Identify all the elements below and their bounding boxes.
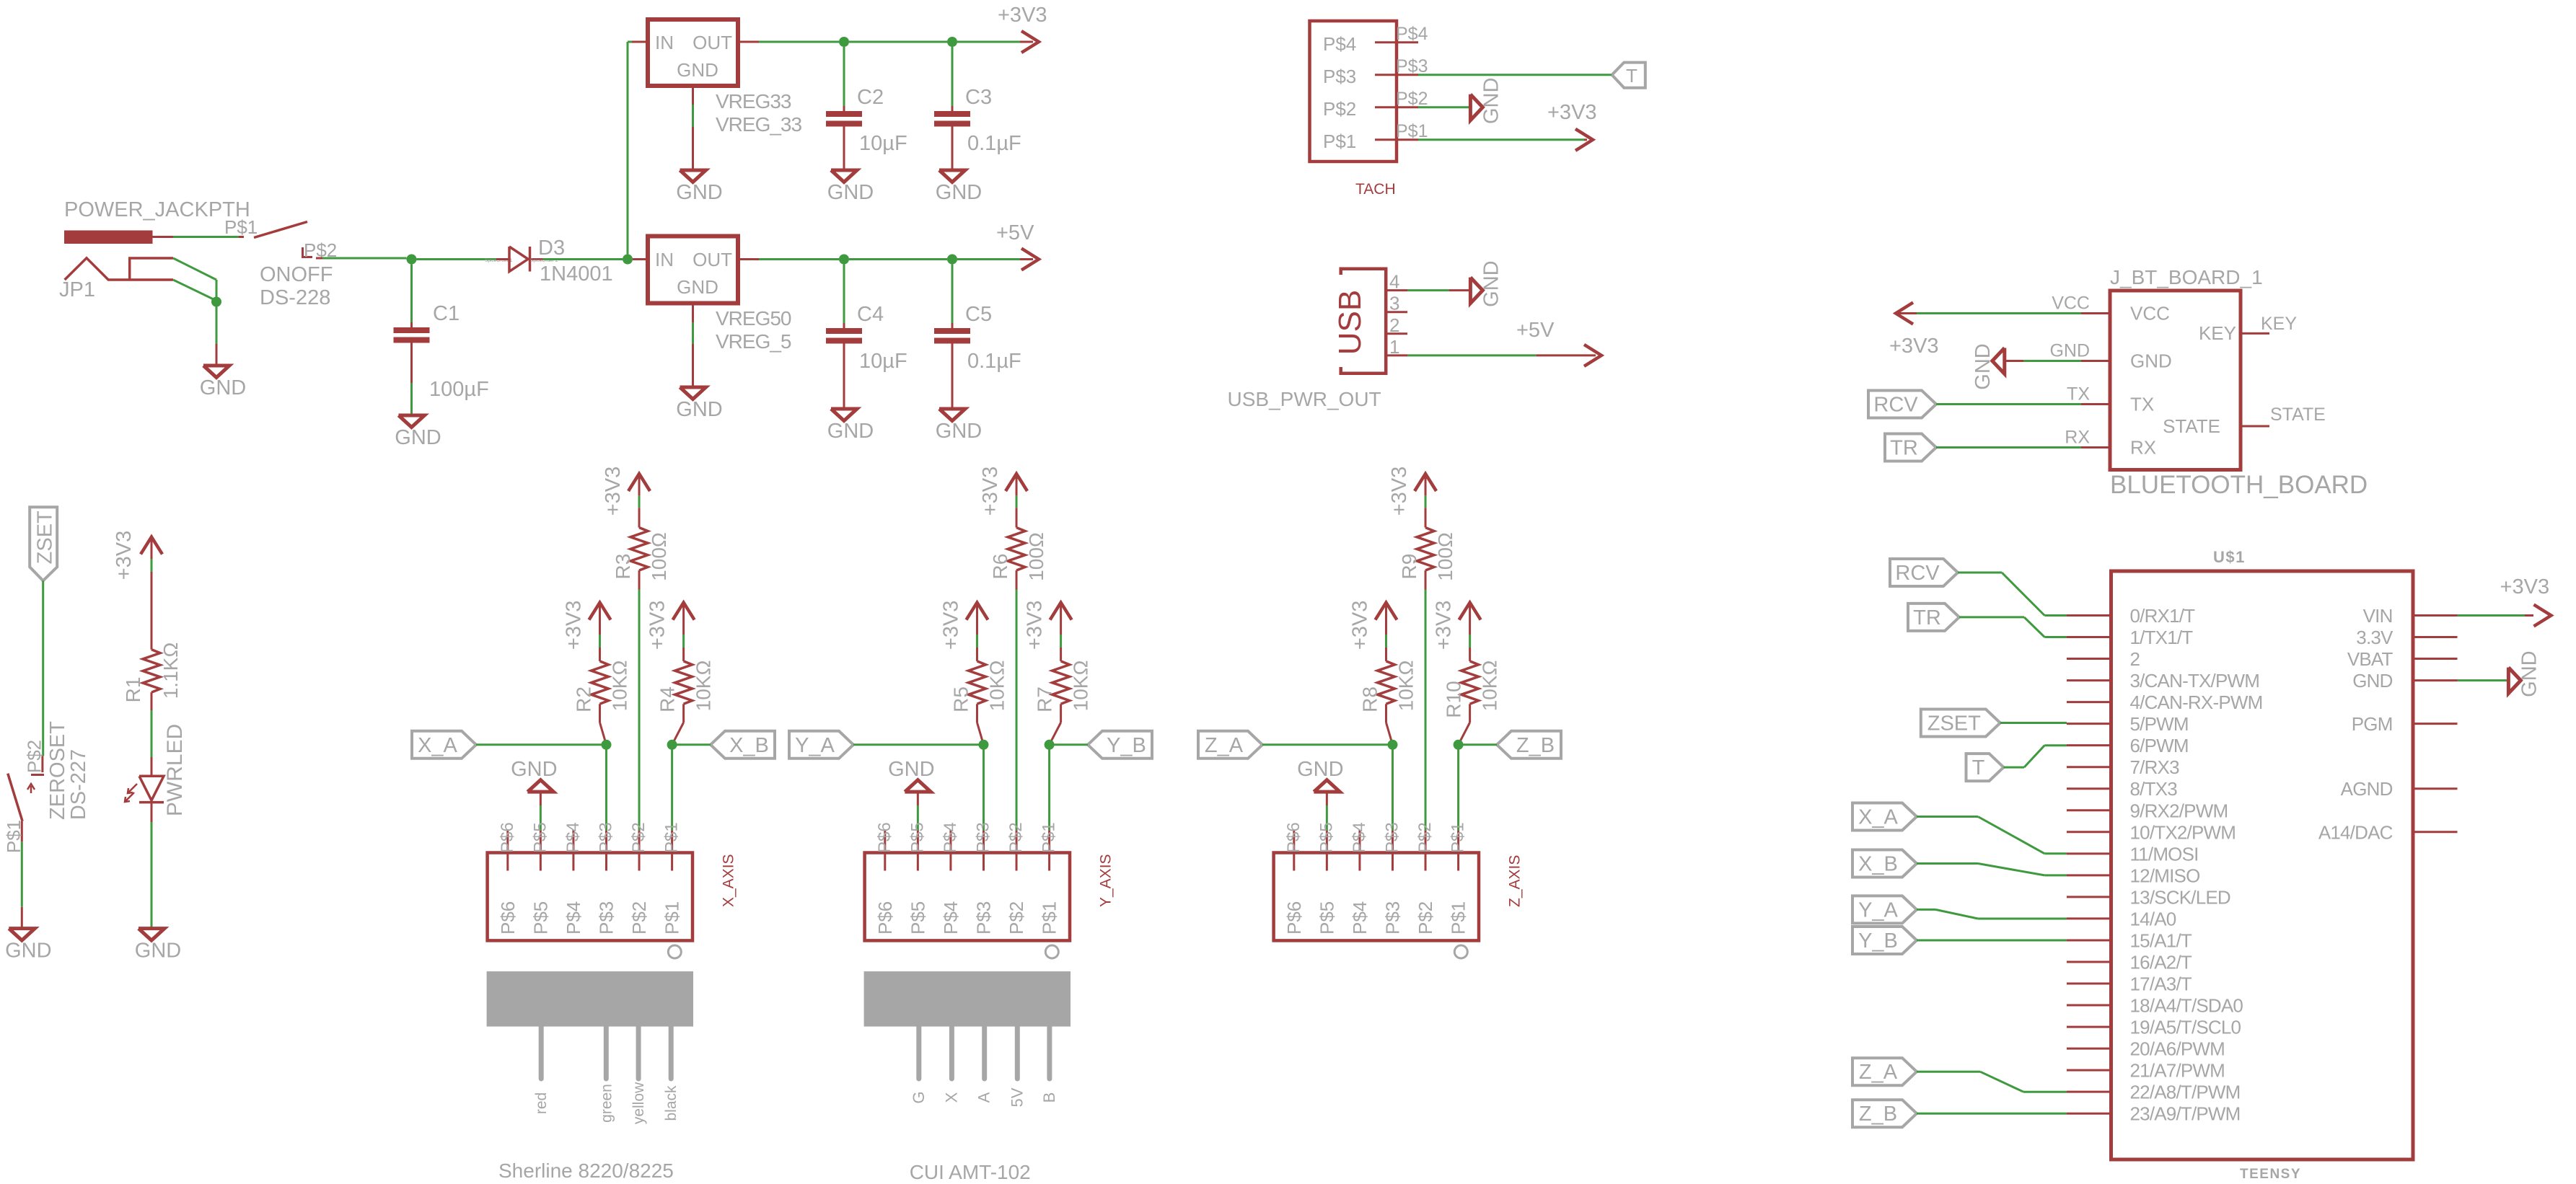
pin label P$2 of ZEROSET xyxy=(24,740,45,773)
pin name 21/A7/PWM inside U$1 xyxy=(2130,1060,2225,1082)
label 10KΩ value of R7 xyxy=(1070,661,1092,712)
wire R3 to pin P$2 xyxy=(638,590,641,831)
label A pin rotated xyxy=(975,1092,993,1103)
ground GND Y_AXIS rotated up xyxy=(888,758,934,792)
svg-text:P$5: P$5 xyxy=(529,901,551,935)
capacitor C5 bottom pin xyxy=(951,344,954,410)
pin 11/MOSI of U$1 xyxy=(2067,852,2111,854)
pin label P$3 outside Z_AXIS xyxy=(1382,822,1402,853)
svg-text:+3V3: +3V3 xyxy=(979,467,1002,516)
svg-text:P$4: P$4 xyxy=(1323,33,1356,55)
svg-text:+5V: +5V xyxy=(1516,319,1555,342)
svg-text:Z_B: Z_B xyxy=(1516,734,1555,757)
pin stub PWRLED GND xyxy=(151,927,153,929)
label +3V3 R4 rotated xyxy=(646,601,669,650)
switch ONOFF P$2 bracket xyxy=(303,247,313,257)
resistor R7 top pin xyxy=(1060,648,1062,661)
LED PWRLED anode pin xyxy=(151,757,153,776)
pin label P$5 outside Y_AXIS xyxy=(907,822,927,853)
pin name VBAT inside U$1 right xyxy=(2347,648,2393,670)
pin name P$3 inside Z_AXIS xyxy=(1381,901,1403,935)
resistor R8 bottom pin xyxy=(1386,704,1392,745)
wire node to diode D3 xyxy=(417,258,506,260)
svg-text:P$5: P$5 xyxy=(1316,822,1336,853)
svg-text:10/TX2/PWM: 10/TX2/PWM xyxy=(2130,821,2236,843)
svg-text:0.1µF: 0.1µF xyxy=(967,350,1021,373)
voltage regulator VREG50 box xyxy=(648,237,738,304)
svg-text:P$6: P$6 xyxy=(498,822,517,853)
svg-text:10µF: 10µF xyxy=(859,350,907,373)
pin name 2 inside U$1 xyxy=(2130,648,2140,670)
switch ZEROSET P$2 pin xyxy=(41,756,43,772)
pin TX of bluetooth board xyxy=(2081,403,2110,405)
svg-text:DS-227: DS-227 xyxy=(67,749,90,820)
image CUI pin G xyxy=(916,1027,921,1079)
pin name P$3 inside Y_AXIS xyxy=(972,901,994,935)
svg-text:GND: GND xyxy=(5,940,51,963)
svg-text:D3: D3 xyxy=(538,237,565,260)
svg-text:P$1: P$1 xyxy=(661,901,683,935)
svg-text:Z_AXIS: Z_AXIS xyxy=(1506,855,1523,907)
resistor R4 bottom pin xyxy=(672,704,684,745)
pin name 3/CAN-TX/PWM inside U$1 xyxy=(2130,670,2260,692)
pin name 4/CAN-RX-PWM inside U$1 xyxy=(2130,692,2263,713)
capacitor C2 top pin xyxy=(843,106,845,111)
junction node jack ground xyxy=(211,297,221,307)
ground GND Z_AXIS rotated up xyxy=(1297,758,1343,792)
pin label P$3 outside TACH xyxy=(1396,56,1428,76)
svg-text:GND: GND xyxy=(827,181,874,204)
label 10KΩ value of R8 xyxy=(1394,661,1417,712)
connector JP1 tip contact xyxy=(130,258,173,280)
svg-text:P$4: P$4 xyxy=(940,901,962,935)
pin label P$5 outside Z_AXIS xyxy=(1316,822,1336,853)
svg-text:P$3: P$3 xyxy=(596,822,615,853)
image CUI connector body xyxy=(864,971,1071,1027)
label +3V3 top xyxy=(998,4,1047,27)
connector JP1 POWER_JACKPTH name label xyxy=(64,198,250,221)
resistor R4 top pin xyxy=(682,648,685,661)
svg-text:P$6: P$6 xyxy=(497,901,519,935)
svg-text:3/CAN-TX/PWM: 3/CAN-TX/PWM xyxy=(2130,670,2260,692)
label DS-227 rotated xyxy=(67,749,90,820)
pin 3 of USB xyxy=(1386,311,1407,313)
flag X_B teensy xyxy=(1852,850,1917,878)
label +3V3 R5 rotated xyxy=(939,601,962,650)
svg-text:P$4: P$4 xyxy=(563,822,583,853)
resistor R3 top pin xyxy=(638,508,641,527)
svg-text:+3V3: +3V3 xyxy=(1547,101,1597,124)
label R1 rotated xyxy=(122,677,144,703)
wire ZEROSET P$1 to GND xyxy=(21,841,23,907)
svg-text:USB_PWR_OUT: USB_PWR_OUT xyxy=(1228,388,1381,410)
diode D3 triangle xyxy=(509,247,528,272)
wire junction to pin P$1 X_AXIS xyxy=(671,745,673,831)
svg-text:+3V3: +3V3 xyxy=(998,4,1047,27)
capacitor C4 plates xyxy=(826,328,862,344)
pin number 2 of USB xyxy=(1389,314,1399,336)
svg-text:VREG33: VREG33 xyxy=(716,90,791,112)
svg-text:BLUETOOTH_BOARD: BLUETOOTH_BOARD xyxy=(2110,471,2368,499)
svg-text:P$5: P$5 xyxy=(907,822,927,853)
label R8 rotated xyxy=(1358,686,1381,712)
pin 8/TX3 of U$1 xyxy=(2067,787,2111,790)
svg-text:+3V3: +3V3 xyxy=(1433,601,1456,650)
pin VCC of bluetooth board xyxy=(2081,312,2110,314)
pin name P$5 inside X_AXIS xyxy=(529,901,551,935)
pin 1 marker circle Y_AXIS xyxy=(1045,945,1058,958)
pin 6/PWM of U$1 xyxy=(2067,744,2111,746)
pin name 12/MISO inside U$1 xyxy=(2130,865,2200,886)
pin name P$2 inside Y_AXIS xyxy=(1006,901,1027,935)
label B pin rotated xyxy=(1040,1092,1058,1103)
pin P$3 of TACH xyxy=(1375,74,1418,76)
wire RCV to TX xyxy=(1936,403,2081,405)
wire Y_B to junction xyxy=(1050,743,1088,746)
svg-text:P$4: P$4 xyxy=(1350,822,1369,853)
svg-text:13/SCK/LED: 13/SCK/LED xyxy=(2130,886,2230,908)
resistor R5 bottom pin xyxy=(977,704,983,745)
resistor R4 zigzag xyxy=(675,661,693,704)
label X_AXIS rotated xyxy=(720,854,737,907)
wire junction to pin P$1 Y_AXIS xyxy=(1048,745,1050,831)
wire Z_A to junction xyxy=(1262,743,1392,746)
pin 14/A0 of U$1 xyxy=(2067,917,2111,919)
pin stub to GND zeroset xyxy=(21,907,23,929)
pin name AGND inside U$1 right xyxy=(2341,778,2393,800)
svg-text:100µF: 100µF xyxy=(429,378,489,401)
label 0.1µF value of C5 xyxy=(967,350,1021,373)
svg-text:23/A9/T/PWM: 23/A9/T/PWM xyxy=(2130,1103,2241,1125)
svg-text:GND: GND xyxy=(2352,670,2392,692)
label C4 xyxy=(857,303,884,326)
label 10KΩ value of R10 xyxy=(1479,661,1501,712)
wire junction to pin P$3 Y_AXIS xyxy=(983,745,985,831)
capacitor C2 bottom pin xyxy=(843,127,845,171)
svg-text:GND: GND xyxy=(1480,260,1503,306)
switch ZEROSET P$2 bracket xyxy=(31,774,44,776)
svg-text:8/TX3: 8/TX3 xyxy=(2130,778,2178,800)
pin PGM of U$1 right xyxy=(2413,723,2458,725)
pin 21/A7/PWM of U$1 xyxy=(2067,1069,2111,1072)
svg-text:C2: C2 xyxy=(857,86,884,109)
svg-text:R1: R1 xyxy=(122,677,144,703)
label R5 rotated xyxy=(949,686,972,712)
svg-text:Y_B: Y_B xyxy=(1107,734,1146,757)
svg-text:A14/DAC: A14/DAC xyxy=(2318,821,2393,843)
pin P$5 of Y_AXIS xyxy=(917,830,919,870)
pin STATE of bluetooth board xyxy=(2241,425,2269,428)
LED PWRLED cathode bar xyxy=(139,801,164,804)
svg-text:19/A5/T/SCL0: 19/A5/T/SCL0 xyxy=(2130,1017,2241,1038)
pin label P$1 outside TACH xyxy=(1396,121,1428,141)
resistor R9 top pin xyxy=(1425,508,1427,527)
svg-text:ZEROSET: ZEROSET xyxy=(46,721,69,820)
pin AGND of U$1 right xyxy=(2413,787,2458,790)
supply +3V3 arrow R8 xyxy=(1375,603,1397,635)
wire +3V3 to R8 xyxy=(1385,635,1387,648)
svg-text:X_AXIS: X_AXIS xyxy=(720,854,737,907)
svg-text:black: black xyxy=(663,1085,680,1121)
flag ZSET xyxy=(30,507,57,580)
pin 15/A1/T of U$1 xyxy=(2067,939,2111,941)
svg-text:P$2: P$2 xyxy=(24,740,45,773)
pin name 0/RX1/T inside U$1 xyxy=(2130,605,2196,627)
pin stub GND Z_AXIS xyxy=(1326,792,1328,805)
resistor R10 bottom pin xyxy=(1459,704,1470,745)
ground GND USB rotated xyxy=(1470,260,1503,306)
svg-text:16/A2/T: 16/A2/T xyxy=(2130,951,2192,973)
label 100Ω value of R9 xyxy=(1434,532,1456,581)
svg-text:GND: GND xyxy=(135,940,181,963)
svg-text:R7: R7 xyxy=(1034,686,1056,712)
resistor R9 bottom pin xyxy=(1425,570,1427,590)
svg-text:Z_A: Z_A xyxy=(1205,734,1244,757)
pin 3/CAN-TX/PWM of U$1 xyxy=(2067,679,2111,681)
pin stub jack xyxy=(153,236,174,238)
connector TACH box xyxy=(1310,21,1397,162)
svg-text:P$6: P$6 xyxy=(875,822,894,853)
svg-text:P$6: P$6 xyxy=(874,901,896,935)
wire node up to VREG33 IN xyxy=(628,42,632,255)
wire VCC to +3V3 xyxy=(1917,312,2081,314)
pin name 3.3V inside U$1 right xyxy=(2356,627,2393,648)
svg-text:Y_A: Y_A xyxy=(795,734,835,757)
pin P$4 of X_AXIS xyxy=(572,830,574,870)
wire +3V3 to R3 xyxy=(638,495,641,508)
supply +3V3 arrow R7 xyxy=(1050,603,1072,635)
pin name A14/DAC inside U$1 right xyxy=(2318,821,2393,843)
connector USB outline xyxy=(1341,269,1386,374)
svg-text:0.1µF: 0.1µF xyxy=(967,132,1021,155)
supply +3V3 arrow R2 xyxy=(589,603,610,635)
label JP1 xyxy=(59,278,95,301)
wire +3V3 to R2 xyxy=(599,635,601,648)
wire switch P$2 to node VIN_RAW xyxy=(316,257,407,260)
supply +5V arrow xyxy=(1020,249,1039,270)
svg-text:GND: GND xyxy=(888,758,934,781)
pin name P$3 inside TACH xyxy=(1323,66,1356,87)
wire VREG33 GND xyxy=(692,105,694,127)
supply +3V3 arrow R3 xyxy=(628,474,650,495)
pin label KEY outside bluetooth board xyxy=(2261,314,2297,334)
svg-text:IN: IN xyxy=(655,32,674,53)
svg-text:P$2: P$2 xyxy=(629,822,649,853)
pin name P$4 inside X_AXIS xyxy=(563,901,584,935)
pin name P$4 inside Z_AXIS xyxy=(1349,901,1371,935)
svg-text:5V: 5V xyxy=(1008,1087,1026,1107)
text SpiceOrder 1 xyxy=(485,258,513,263)
svg-text:X_B: X_B xyxy=(1858,853,1898,876)
pin name 16/A2/T inside U$1 xyxy=(2130,951,2192,973)
label VREG50 xyxy=(716,307,791,330)
wire sleeve to ground node xyxy=(173,258,216,344)
junction node Y_B xyxy=(1045,740,1055,750)
pin name 23/A9/T/PWM inside U$1 xyxy=(2130,1103,2241,1125)
flag RCV teensy xyxy=(1890,559,1958,586)
svg-text:7/RX3: 7/RX3 xyxy=(2130,756,2180,778)
svg-text:1N4001: 1N4001 xyxy=(540,262,613,286)
pin 20/A6/PWM of U$1 xyxy=(2067,1048,2111,1050)
svg-text:TR: TR xyxy=(1890,437,1918,460)
svg-text:10KΩ: 10KΩ xyxy=(693,661,715,712)
ground GND C4 xyxy=(827,409,874,443)
svg-text:P$4: P$4 xyxy=(941,822,960,853)
LED PWRLED emission arrows xyxy=(125,784,137,802)
pin 12/MISO of U$1 xyxy=(2067,874,2111,876)
svg-text:+3V3: +3V3 xyxy=(602,467,625,516)
pin 1 marker circle X_AXIS xyxy=(668,945,681,958)
image Sherline pin red xyxy=(539,1027,544,1079)
connector Y_AXIS box xyxy=(865,853,1070,941)
svg-text:P$3: P$3 xyxy=(1323,66,1356,87)
svg-text:GND: GND xyxy=(395,426,441,449)
connector Z_AXIS box xyxy=(1274,853,1479,941)
wire USB pin1 to +5V xyxy=(1407,354,1537,356)
label 10µF value of C4 xyxy=(859,350,907,373)
pin label TX outside bluetooth board xyxy=(2067,384,2090,405)
label 10µF value of C2 xyxy=(859,132,907,155)
wire RCV to pin 0/RX1/T xyxy=(1958,573,2067,616)
label 10KΩ value of R4 xyxy=(693,661,715,712)
label 10KΩ value of R2 xyxy=(608,661,630,712)
wire R9 to pin P$2 xyxy=(1425,590,1427,831)
label yellow wire rotated xyxy=(630,1082,647,1124)
capacitor C3 bottom pin xyxy=(951,127,954,171)
svg-text:R9: R9 xyxy=(1398,554,1420,580)
switch ZEROSET arrow xyxy=(27,784,35,793)
label 1.1KΩ value rotated xyxy=(159,642,182,699)
resistor R1 zigzag xyxy=(143,650,160,692)
svg-text:P$5: P$5 xyxy=(1316,901,1337,935)
wire X_B to pin 12/MISO xyxy=(1917,864,2067,875)
svg-text:P$1: P$1 xyxy=(1448,901,1469,935)
wire TR to pin 1/TX1/T xyxy=(1959,617,2067,637)
pin name P$1 inside Y_AXIS xyxy=(1039,901,1060,935)
flag Z_A teensy xyxy=(1852,1058,1917,1085)
capacitor C1 bottom pin xyxy=(410,343,413,384)
pin label P$4 outside Z_AXIS xyxy=(1350,822,1369,853)
resistor R2 top pin xyxy=(599,648,601,661)
label +3V3 R10 rotated xyxy=(1433,601,1456,650)
pin name 9/RX2/PWM inside U$1 xyxy=(2130,800,2228,821)
svg-text:GND: GND xyxy=(1297,758,1343,781)
capacitor C4 top pin xyxy=(843,323,845,328)
svg-text:TX: TX xyxy=(2130,394,2154,415)
svg-text:G: G xyxy=(910,1091,928,1103)
label 1N4001 xyxy=(540,262,613,286)
pin P$2 of Z_AXIS xyxy=(1425,830,1427,870)
pin GND of U$1 right xyxy=(2413,679,2458,681)
pin name P$4 inside Y_AXIS xyxy=(940,901,962,935)
svg-text:3.3V: 3.3V xyxy=(2356,627,2393,648)
pin label P$1 outside X_AXIS xyxy=(662,822,682,853)
wire node to capacitor C3 xyxy=(951,47,954,106)
svg-text:green: green xyxy=(598,1084,615,1123)
pin 2 of USB xyxy=(1386,332,1407,335)
ground GND C5 xyxy=(936,409,982,443)
pin label P$6 outside Y_AXIS xyxy=(875,822,894,853)
svg-text:GND: GND xyxy=(936,181,982,204)
pin P$3 of X_AXIS xyxy=(605,830,607,870)
svg-text:4/CAN-RX-PWM: 4/CAN-RX-PWM xyxy=(2130,692,2263,713)
pin name P$6 inside Z_AXIS xyxy=(1283,901,1305,935)
wire USB pin4 to GND xyxy=(1407,289,1470,291)
wire VREG50 GND xyxy=(692,322,694,344)
svg-text:+3V3: +3V3 xyxy=(562,601,585,650)
resistor R8 zigzag xyxy=(1377,661,1394,704)
pin KEY of bluetooth board xyxy=(2241,332,2269,335)
pin name P$5 inside Y_AXIS xyxy=(907,901,928,935)
image CUI pin B xyxy=(1047,1027,1052,1079)
svg-text:GND: GND xyxy=(2130,350,2172,372)
pin VREG33 IN xyxy=(632,41,648,43)
resistor R6 top pin xyxy=(1016,508,1018,527)
svg-text:2: 2 xyxy=(2130,648,2140,670)
svg-text:P$3: P$3 xyxy=(972,901,994,935)
svg-text:10KΩ: 10KΩ xyxy=(608,661,630,712)
svg-text:KEY: KEY xyxy=(2199,322,2236,344)
svg-text:P$1: P$1 xyxy=(1323,131,1356,152)
pin label P$3 outside X_AXIS xyxy=(596,822,615,853)
wire +3V3 to R1 xyxy=(151,559,153,572)
pin name P$1 inside TACH xyxy=(1323,131,1356,152)
label +3V3 bluetooth xyxy=(1889,335,1939,358)
label 5V pin rotated xyxy=(1008,1087,1026,1107)
text SpiceOrder 2 xyxy=(530,258,558,263)
capacitor C3 plates xyxy=(934,111,970,127)
supply +3V3 arrow R6 xyxy=(1006,474,1027,495)
svg-text:STATE: STATE xyxy=(2163,415,2220,437)
label J_BT_BOARD_1 xyxy=(2110,266,2263,288)
wire ZSET to pin 5/PWM xyxy=(2000,722,2067,724)
pin name P$6 inside X_AXIS xyxy=(497,901,519,935)
pin stub jack ground xyxy=(216,344,218,365)
svg-text:R6: R6 xyxy=(989,554,1011,580)
wire X_B to junction xyxy=(672,743,711,746)
pin name IN of VREG50 xyxy=(655,249,674,270)
svg-text:VREG_5: VREG_5 xyxy=(716,330,791,353)
label VREG_5 xyxy=(716,330,791,353)
LED PWRLED triangle xyxy=(139,776,164,800)
ground GND ZEROSET xyxy=(5,929,51,963)
label R9 rotated xyxy=(1398,554,1420,580)
svg-text:X_A: X_A xyxy=(418,734,457,757)
wire +3V3 to R7 xyxy=(1060,635,1062,648)
pin name P$5 inside Z_AXIS xyxy=(1316,901,1337,935)
wire GND to pin P$5 X_AXIS xyxy=(540,805,542,830)
pin name P$4 inside TACH xyxy=(1323,33,1356,55)
svg-text:2: 2 xyxy=(1389,314,1399,336)
label +5V USB xyxy=(1516,319,1555,342)
pin name 19/A5/T/SCL0 inside U$1 xyxy=(2130,1017,2241,1038)
label +3V3 R2 rotated xyxy=(562,601,585,650)
resistor R5 top pin xyxy=(976,648,978,661)
svg-text:ONOFF: ONOFF xyxy=(260,263,333,286)
pin label P$1 outside Y_AXIS xyxy=(1039,822,1059,853)
wire node to capacitor C1 xyxy=(410,265,413,323)
diode D3 cathode bar xyxy=(529,247,532,272)
svg-text:GND: GND xyxy=(676,181,722,204)
pin label P$4 outside X_AXIS xyxy=(563,822,583,853)
wire VREG33 OUT to +3V3 arrow xyxy=(759,41,1020,43)
svg-text:10KΩ: 10KΩ xyxy=(1394,661,1417,712)
pin P$6 of Y_AXIS xyxy=(884,830,886,870)
svg-text:P$2: P$2 xyxy=(1415,822,1435,853)
voltage regulator VREG33 box xyxy=(648,19,738,86)
svg-text:10KΩ: 10KΩ xyxy=(985,661,1008,712)
svg-text:5/PWM: 5/PWM xyxy=(2130,713,2189,735)
